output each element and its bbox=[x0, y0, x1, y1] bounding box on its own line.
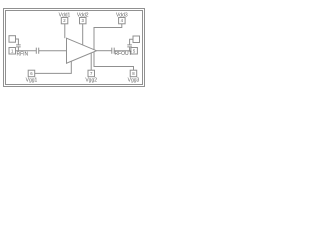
wire cap C1 to amp input bbox=[39, 50, 67, 52]
svg-text:Vgg1: Vgg1 bbox=[26, 78, 38, 84]
pin 4 box bbox=[119, 18, 126, 24]
wire capacitor C2 to RFIN line bbox=[17, 47, 19, 51]
svg-text:3: 3 bbox=[82, 18, 85, 23]
svg-text:4: 4 bbox=[121, 18, 124, 23]
wire Vdd2 to amp bbox=[82, 24, 84, 45]
wire Vgg1 to amp bbox=[35, 62, 72, 74]
wire pad to capacitor C4 bbox=[130, 39, 133, 45]
wire Vgg3 to amp bbox=[94, 52, 134, 70]
capacitor C2 (shunt, input side) bbox=[16, 45, 21, 47]
wire amp output to cap C3 bbox=[97, 50, 112, 52]
svg-text:RFIN: RFIN bbox=[17, 51, 29, 57]
wire capacitor C4 to RFOUT line bbox=[129, 47, 131, 51]
pin 7 box bbox=[88, 70, 95, 77]
capacitor C3 (series DC block, output) bbox=[112, 48, 114, 54]
op-amp U1 bbox=[67, 38, 97, 63]
svg-text:Vgg2: Vgg2 bbox=[85, 78, 97, 84]
pin 1 box bbox=[9, 48, 16, 55]
wire pad to capacitor C2 bbox=[16, 39, 19, 45]
pin 3 box bbox=[80, 18, 87, 24]
capacitor C4 (shunt, output side) bbox=[127, 45, 132, 47]
wire cap C3 to RFOUT pin bbox=[114, 50, 131, 52]
svg-text:7: 7 bbox=[90, 71, 93, 76]
pin 6 box bbox=[28, 70, 35, 77]
pin 2 box bbox=[61, 18, 68, 24]
pin 5 box bbox=[131, 48, 138, 55]
svg-text:5: 5 bbox=[133, 48, 136, 53]
svg-text:8: 8 bbox=[132, 71, 135, 76]
pin 8 box bbox=[130, 70, 137, 77]
svg-text:RFOUT: RFOUT bbox=[115, 51, 132, 57]
svg-text:1: 1 bbox=[11, 48, 14, 53]
pad box left (DC block pad) bbox=[9, 36, 16, 43]
package outline outer bbox=[4, 9, 145, 87]
wire Vgg2 to amp bbox=[90, 53, 92, 70]
package outline inner bbox=[6, 11, 143, 85]
pad box right (DC block pad) bbox=[133, 36, 140, 43]
wire RFIN to cap C1 bbox=[16, 50, 37, 52]
svg-text:2: 2 bbox=[63, 18, 66, 23]
wire Vdd1 to amp bbox=[64, 24, 66, 38]
svg-text:6: 6 bbox=[30, 71, 33, 76]
capacitor C1 (series DC block, input) bbox=[36, 48, 38, 54]
svg-text:Vgg3: Vgg3 bbox=[128, 78, 140, 84]
wire Vdd3 to amp bbox=[94, 24, 122, 50]
